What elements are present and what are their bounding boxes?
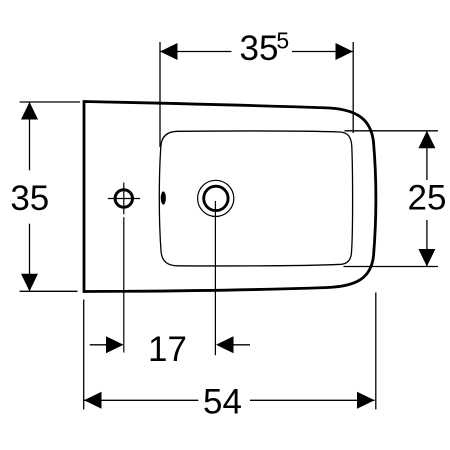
tap hole circle xyxy=(115,190,132,207)
dim 35 top extension line xyxy=(20,101,80,103)
drain inner circle xyxy=(204,186,228,210)
svg-text:17: 17 xyxy=(148,330,187,369)
svg-text:54: 54 xyxy=(203,383,242,422)
dim 54 right arrow xyxy=(357,392,375,409)
dim 35 line upper segment xyxy=(29,102,31,170)
dim 25 down arrow xyxy=(418,249,435,267)
dim 54 line left segment xyxy=(84,399,198,401)
drain outer circle xyxy=(198,180,234,216)
dim 17 left tail xyxy=(90,344,108,346)
bidet outer outline xyxy=(84,102,376,292)
dim 17 drain extension line xyxy=(214,201,216,355)
dim 35 line lower segment xyxy=(29,224,31,292)
dim 35.5 line left segment xyxy=(160,51,232,53)
dim 25 line lower segment xyxy=(426,220,428,267)
dim 25 up arrow xyxy=(418,131,435,149)
dim 54 left arrow xyxy=(84,392,102,409)
dim 35.5 left extension line xyxy=(159,42,161,147)
tap hole crosshair vertical xyxy=(123,183,125,215)
dim 25 bottom extension line xyxy=(344,266,439,268)
dim 35.5 line right segment xyxy=(292,51,353,53)
dim 25 line upper segment xyxy=(426,131,428,180)
dim 17 left arrow xyxy=(106,336,124,353)
dim 25 top extension line xyxy=(345,130,439,132)
svg-text:25: 25 xyxy=(408,179,447,218)
svg-text:35: 35 xyxy=(10,179,49,218)
dim 54 left extension line xyxy=(83,300,85,410)
dim 35 up arrow xyxy=(21,102,38,120)
dim 54 right extension line xyxy=(375,293,377,410)
svg-text:5: 5 xyxy=(276,27,289,53)
dim 17 right tail xyxy=(232,344,250,346)
dim 17 tap extension line xyxy=(123,217,125,352)
dim 54 line right segment xyxy=(250,399,375,401)
tap hole crosshair horizontal xyxy=(108,198,140,200)
svg-text:35: 35 xyxy=(240,29,279,68)
dim 35.5 right extension line xyxy=(352,42,354,133)
dim 35.5 left arrow xyxy=(160,43,178,60)
dim 35.5 right arrow xyxy=(336,43,354,60)
dim 35 bottom extension line xyxy=(20,290,78,292)
overflow hole xyxy=(161,191,166,204)
bidet inner rim xyxy=(159,131,352,266)
dim 35 down arrow xyxy=(21,274,38,292)
dim 17 right arrow xyxy=(216,336,234,353)
